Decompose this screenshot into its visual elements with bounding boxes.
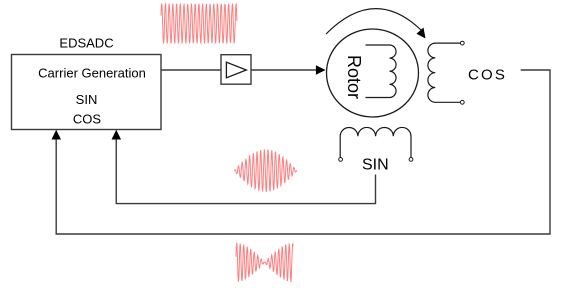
COS winding terminal top [460, 41, 464, 45]
arrowhead COS feedback into block [52, 130, 62, 140]
svg-text:SIN: SIN [76, 92, 98, 107]
svg-text:EDSADC: EDSADC [59, 36, 113, 51]
svg-text:SIN: SIN [362, 157, 389, 174]
svg-text:Carrier Generation: Carrier Generation [38, 66, 146, 81]
amplifier triangle [226, 62, 246, 78]
carrier generation block U1 [12, 55, 162, 130]
wire: SIN feedback (down, left, up) [116, 139, 375, 204]
amplifier U2 box [221, 55, 251, 84]
SIN modulated waveform [234, 149, 297, 192]
COS stator winding L2 [428, 43, 461, 102]
SIN winding terminal right [409, 158, 413, 162]
carrier sine waveform [161, 4, 237, 44]
rotor winding L1 [366, 45, 397, 98]
arrowhead into rotor [316, 65, 326, 74]
SIN stator winding L3 [340, 127, 411, 157]
wire: amplifier to rotor [251, 69, 317, 71]
wire: block output to amplifier [161, 69, 221, 71]
rotation arrowhead [417, 28, 426, 39]
svg-text:COS: COS [73, 112, 102, 127]
svg-text:COS: COS [468, 67, 507, 84]
wire: COS feedback (right, down, left) [56, 70, 550, 234]
rotation direction arc [326, 9, 422, 34]
arrowhead SIN feedback into block [112, 130, 122, 140]
rotor body circle [327, 29, 419, 117]
COS modulated waveform [236, 243, 293, 282]
svg-text:Rotor: Rotor [344, 55, 364, 99]
COS winding terminal bottom [460, 100, 464, 104]
SIN winding terminal left [339, 158, 343, 162]
